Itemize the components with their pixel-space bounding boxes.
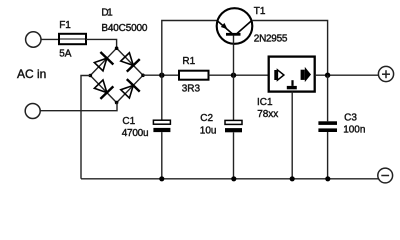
wire AC bottom to bridge bottom	[40, 103, 117, 111]
node C3 ground	[325, 176, 330, 181]
wire collector top rail to output junction	[252, 21, 328, 76]
bridge D1 diamond wires	[90, 48, 143, 102]
node C1 ground	[159, 176, 164, 181]
wire R1 to IC1	[209, 74, 269, 76]
resistor R1	[179, 71, 209, 80]
diode top-left	[92, 52, 113, 73]
diode top-right	[119, 51, 140, 72]
terminal AC top	[26, 32, 41, 47]
svg-text:78xx: 78xx	[257, 109, 278, 120]
wire fuse to bridge top	[86, 39, 117, 48]
svg-text:R1: R1	[182, 56, 195, 67]
svg-text:T1: T1	[254, 6, 266, 17]
svg-text:D1: D1	[101, 7, 113, 18]
svg-text:C2: C2	[200, 113, 213, 124]
node base junction	[231, 73, 236, 78]
terminal AC bottom	[25, 104, 40, 119]
svg-text:AC in: AC in	[17, 67, 46, 81]
svg-text:C1: C1	[122, 116, 135, 127]
svg-text:F1: F1	[59, 20, 71, 31]
terminal plus	[378, 66, 393, 81]
node bridge right	[141, 74, 145, 78]
fuse F1	[59, 34, 86, 44]
svg-text:B40C5000: B40C5000	[101, 23, 147, 34]
node bridge top	[115, 46, 119, 50]
node IC1 ground	[290, 176, 295, 181]
node raw DC junction	[159, 73, 164, 78]
capacitor C1	[153, 75, 170, 179]
svg-text:100n: 100n	[343, 124, 365, 135]
wire IC1 ground down	[291, 92, 293, 179]
node bridge bottom	[115, 101, 119, 105]
bottom rail wire	[81, 178, 379, 180]
wire base down	[233, 36, 235, 76]
wire bridge right to R1	[143, 74, 179, 76]
svg-text:3R3: 3R3	[182, 84, 201, 95]
diode bottom-left	[92, 78, 113, 99]
node bridge left	[89, 74, 93, 78]
capacitor C2	[225, 75, 242, 179]
diode bottom-right	[119, 79, 140, 100]
wire IC1 out to plus terminal	[315, 74, 379, 76]
svg-text:2N2955: 2N2955	[254, 33, 288, 44]
svg-text:5A: 5A	[59, 48, 72, 59]
capacitor C3	[318, 75, 337, 179]
transistor T1	[217, 8, 253, 44]
svg-text:4700u: 4700u	[122, 128, 149, 139]
svg-text:10u: 10u	[200, 125, 217, 136]
terminal minus	[378, 168, 393, 183]
node C2 ground	[231, 176, 236, 181]
wire	[41, 38, 59, 40]
IC1 regulator box	[269, 57, 315, 92]
node output junction	[325, 73, 330, 78]
svg-text:IC1: IC1	[257, 97, 273, 108]
wire bridge left to bottom rail	[81, 76, 90, 179]
svg-text:C3: C3	[344, 112, 357, 123]
wire raw DC up to top rail	[162, 21, 217, 76]
